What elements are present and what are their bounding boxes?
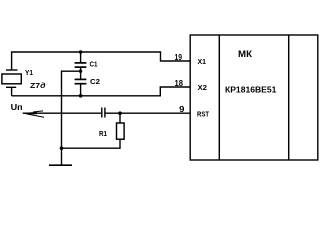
input arrow Un bbox=[21, 111, 44, 117]
resistor R1 bbox=[117, 123, 125, 139]
capacitor C2 bbox=[75, 71, 87, 96]
crystal Y1 bbox=[2, 70, 21, 96]
node: C1 top junction bbox=[79, 50, 83, 54]
capacitor C3 (series) bbox=[102, 108, 105, 118]
svg-text:КР1816ВЕ51: КР1816ВЕ51 bbox=[225, 84, 277, 94]
box divider right bbox=[288, 35, 290, 160]
node: RST junction bbox=[118, 111, 122, 115]
wire C1/C2 midpoint to ground rail bbox=[62, 71, 81, 165]
wire top: crystal top / C1 top to pin 19 bbox=[12, 52, 190, 61]
svg-text:9: 9 bbox=[179, 105, 185, 114]
wire R1 bottom to ground rail bbox=[62, 139, 121, 148]
svg-text:RST: RST bbox=[197, 110, 209, 119]
svg-text:19: 19 bbox=[175, 53, 183, 62]
svg-text:Z7д: Z7д bbox=[30, 82, 46, 90]
svg-text:Y1: Y1 bbox=[25, 70, 33, 77]
node: ground junction bbox=[60, 146, 64, 150]
capacitor C1 bbox=[75, 52, 87, 71]
wire C3 to RST pin 9 bbox=[106, 112, 190, 114]
svg-text:X1: X1 bbox=[198, 57, 207, 66]
svg-text:МК: МК bbox=[238, 49, 252, 60]
MK box КР1816ВЕ51 bbox=[190, 35, 318, 160]
wire Un to C3 bbox=[23, 112, 101, 114]
svg-text:C1: C1 bbox=[90, 62, 98, 69]
svg-text:R1: R1 bbox=[99, 131, 107, 138]
node: C1/C2 midpoint junction bbox=[79, 70, 82, 73]
svg-text:18: 18 bbox=[175, 79, 184, 88]
svg-text:Uп: Uп bbox=[11, 103, 23, 112]
box divider left bbox=[218, 35, 220, 160]
wire crystal top stem bbox=[11, 51, 13, 70]
wire bottom: crystal bottom / C2 bottom to pin 18 bbox=[12, 87, 190, 96]
svg-text:X2: X2 bbox=[198, 83, 208, 92]
wire R1 top to RST node bbox=[119, 113, 121, 122]
node: C2 bottom junction bbox=[79, 94, 83, 98]
svg-text:C2: C2 bbox=[90, 79, 100, 86]
ground bbox=[49, 164, 72, 166]
